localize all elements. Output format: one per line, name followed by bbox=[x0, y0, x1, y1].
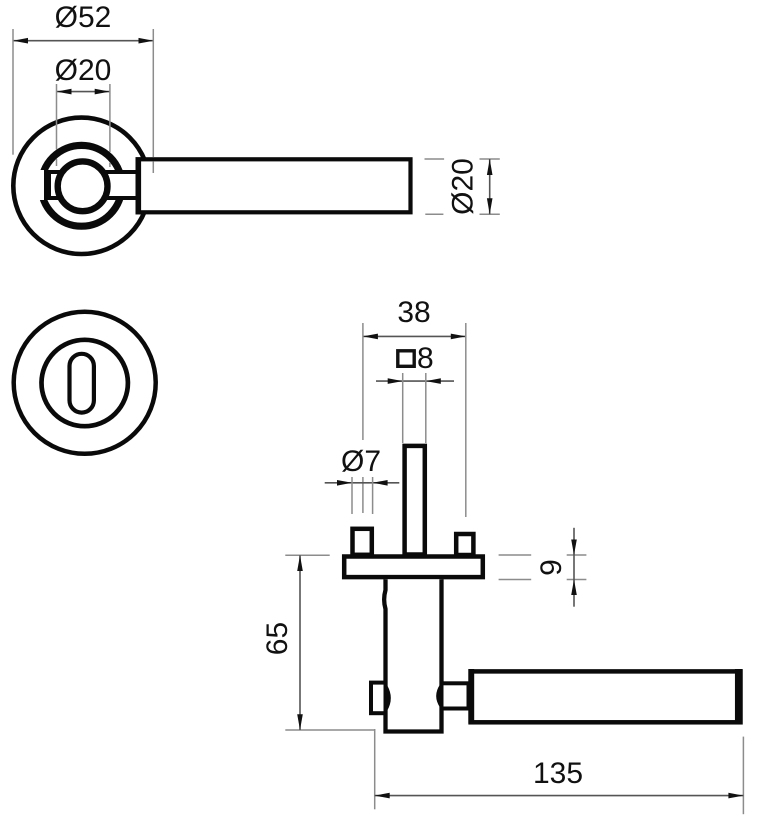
handle neck bar (front) bbox=[36, 170, 138, 200]
spindle (square bar) bbox=[405, 446, 425, 555]
svg-text:38: 38 bbox=[397, 296, 430, 329]
dim square-8 extension line right bbox=[425, 373, 427, 443]
dim Ø20 arrow left bbox=[57, 89, 72, 95]
dim Ø7 line bbox=[325, 482, 400, 484]
screw post left bbox=[353, 529, 372, 555]
keyhole slot bbox=[70, 354, 94, 413]
dim 38 extension line right bbox=[465, 323, 467, 517]
dim square-8 line bbox=[376, 380, 454, 382]
dim 135 arrow left bbox=[375, 793, 390, 799]
svg-text:Ø7: Ø7 bbox=[341, 445, 381, 478]
svg-text:Ø52: Ø52 bbox=[55, 1, 112, 34]
lever grip (side) bbox=[471, 671, 741, 722]
dim 65 extension dash top bbox=[285, 554, 329, 556]
dim Ø7 arrow right (outside) bbox=[373, 480, 388, 486]
collar between neck and lever bbox=[438, 686, 442, 707]
dim 38 extension line left (lower segment) bbox=[362, 477, 364, 513]
lever grip (front) bbox=[138, 159, 411, 212]
dim Ø52 line bbox=[13, 40, 154, 42]
dim Ø20 lever extension dash top bbox=[425, 158, 445, 160]
dim Ø20 arrow right bbox=[95, 89, 110, 95]
dim 9 line bbox=[573, 528, 575, 607]
screw post right bbox=[456, 534, 473, 555]
dim 135 arrow right bbox=[728, 793, 743, 799]
dim 9 extension dash top bbox=[499, 554, 532, 556]
dim square-8 extension line left bbox=[402, 373, 404, 443]
dim Ø20 lever arrow up bbox=[487, 159, 493, 175]
dim Ø52 arrow right bbox=[139, 38, 154, 44]
dim Ø20 lever extension dash bottom bbox=[425, 213, 443, 215]
rosette outer circle bbox=[13, 118, 149, 254]
set screw (left) bbox=[386, 686, 390, 710]
dim 135 line bbox=[375, 795, 744, 797]
escutcheon inner circle bbox=[41, 340, 127, 426]
dim 38 arrow right bbox=[451, 334, 466, 340]
lever grip left end line (side) bbox=[468, 669, 474, 724]
dim 38 line bbox=[363, 335, 466, 337]
dim square-8 arrow left (outside) bbox=[388, 378, 403, 384]
dim Ø7 arrow left (outside) bbox=[337, 480, 352, 486]
svg-text:135: 135 bbox=[533, 757, 583, 790]
dim 9 arrow bottom (outside) bbox=[571, 580, 577, 596]
escutcheon outer circle bbox=[14, 312, 156, 454]
dim Ø20 line bbox=[57, 91, 110, 93]
lever end cap thick line bbox=[735, 669, 743, 724]
dim 65 extension dash bottom bbox=[285, 729, 374, 731]
dim Ø7 extension line left bbox=[351, 477, 353, 514]
dim 38 arrow left bbox=[363, 334, 378, 340]
rosette raised ring bbox=[41, 145, 122, 226]
dim Ø20 extension line right bbox=[109, 84, 111, 152]
dim square-8 arrow right (outside) bbox=[426, 378, 441, 384]
dim 65 line bbox=[299, 555, 301, 730]
svg-text:9: 9 bbox=[535, 559, 568, 576]
dim Ø20 lever arrow down bbox=[487, 198, 493, 214]
dim Ø52 extension line left bbox=[12, 29, 14, 155]
svg-text:Ø20: Ø20 bbox=[55, 54, 112, 87]
dim square-8 square symbol bbox=[398, 351, 414, 367]
svg-text:8: 8 bbox=[417, 342, 434, 375]
dim 38 extension line left (upper segment) bbox=[362, 323, 364, 440]
handle boss circle (front) bbox=[58, 161, 108, 211]
dim 9 extension dash bottom bbox=[499, 579, 532, 581]
dim Ø52 extension line right (over lever) bbox=[152, 29, 154, 157]
rosette flange (side) bbox=[344, 557, 483, 578]
dim Ø7 extension line right bbox=[372, 477, 374, 514]
dim Ø20 lever line bbox=[489, 159, 491, 214]
dim 135 extension line right bbox=[742, 737, 744, 815]
neck (side) bbox=[384, 579, 441, 731]
svg-text:Ø20: Ø20 bbox=[447, 158, 480, 215]
dim Ø52 arrow left bbox=[13, 38, 28, 44]
lever grip left end line (front) bbox=[136, 157, 142, 214]
svg-text:65: 65 bbox=[261, 622, 294, 655]
dim 9 arrow top (outside) bbox=[571, 540, 577, 556]
dim 65 arrow bottom bbox=[297, 714, 303, 730]
dim 65 arrow top bbox=[297, 555, 303, 571]
dim Ø20 extension line left bbox=[56, 84, 58, 149]
dim 135 extension line left bbox=[374, 729, 376, 809]
